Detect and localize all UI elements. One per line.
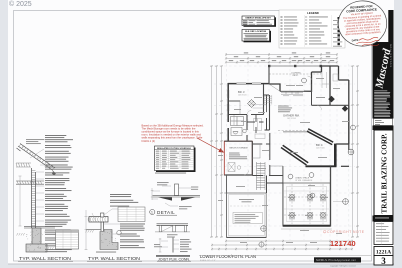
corridor west wall (269, 133, 271, 175)
job info black band (373, 216, 394, 222)
br4 thick east wall (334, 144, 337, 167)
patio slab outline (227, 193, 267, 237)
joist dim (159, 238, 162, 252)
detail ref circle (150, 209, 155, 214)
left outer wall upper (227, 83, 229, 122)
mech fixtures (228, 163, 235, 172)
red energy note (142, 124, 204, 143)
wall below mech (226, 175, 228, 238)
wall section 1 title underline (18, 260, 73, 262)
wall section 2 stem wall (100, 230, 118, 250)
svg-text:BR. 4: BR. 4 (316, 143, 323, 147)
right wall br4 connect (336, 143, 349, 145)
plan extra thin partitions (234, 84, 312, 166)
bottom-left marker circle (259, 242, 264, 247)
diag wall upper (307, 129, 333, 145)
crawl space dashed grid (284, 184, 329, 224)
gather note block (278, 106, 292, 113)
wall section 2 leaders (92, 209, 126, 234)
main top wall (228, 83, 270, 85)
gap bar (373, 126, 394, 131)
svg-text:Copyright © All rights reserve: Copyright © All rights reserved (330, 264, 356, 267)
door arc mech (244, 171, 249, 176)
svg-text:16/2 X 15/8: 16/2 X 15/8 (287, 118, 296, 120)
sheet number box (374, 256, 393, 266)
marker circle 2 (342, 105, 348, 111)
detail leaders (152, 186, 191, 206)
marker circle crawl 1 (288, 174, 293, 179)
wall section 1 footing pad (26, 244, 47, 252)
svg-text:121740: 121740 (330, 239, 356, 248)
copyright note red (323, 230, 364, 234)
svg-text:3: 3 (381, 256, 386, 266)
wall section 1 roof rafter hatch (19, 144, 54, 169)
top wall window 1 (237, 83, 247, 85)
svg-text:NWMLS·PhotoAppraisal·net: NWMLS·PhotoAppraisal·net (316, 258, 356, 262)
detail labels (157, 182, 169, 185)
stamp signature tail (362, 44, 379, 45)
svg-text:TYP. WALL SECTION: TYP. WALL SECTION (88, 256, 140, 261)
right wing bay step (341, 144, 349, 166)
wall section 1 mini table (56, 230, 79, 249)
joist beam (157, 224, 189, 226)
foundation left wall (282, 166, 284, 227)
plan construction lines horizontal (214, 66, 355, 226)
svg-text:TRAIL BLAZING CORP.: TRAIL BLAZING CORP. (380, 133, 389, 213)
wall section 2 annotations bottom (120, 224, 145, 249)
wall y175 hall south (252, 175, 283, 177)
left lower outer wall (224, 175, 226, 193)
wall section 2 annotations top (110, 194, 138, 207)
patio label (239, 199, 254, 200)
wall section 1 mid floor band (16, 181, 44, 184)
svg-text:11/0 X 10/0: 11/0 X 10/0 (316, 147, 325, 149)
plan right dimension chains (351, 65, 359, 238)
wall section 1 leaders (30, 149, 54, 232)
insulated footing schedule table (155, 146, 195, 171)
br3 diamond fixture (248, 100, 256, 108)
svg-text:JOIST PLM. CONN.: JOIST PLM. CONN. (158, 257, 190, 261)
hall wall vertical (246, 115, 248, 141)
left wall windows (228, 90, 229, 111)
wall section 2 floor batt band (88, 217, 108, 223)
svg-text:DATE:: DATE: (352, 39, 360, 43)
diag wall lower (281, 145, 308, 165)
joist lower leaders (161, 240, 179, 249)
door arc gather (308, 76, 312, 80)
svg-text:PATIO: PATIO (293, 74, 299, 77)
wall y144 kitchen south (252, 143, 270, 145)
drawn-checked box (374, 119, 393, 126)
wall section 1 grade hatch (17, 233, 54, 250)
plan bottom dimension chains (211, 240, 353, 251)
wall section 1 stud wall (32, 168, 36, 228)
svg-text:N1101.1 (2): N1101.1 (2) (142, 139, 156, 143)
title strip fine print (374, 91, 390, 118)
svg-text:TYP. WALL SECTION: TYP. WALL SECTION (19, 256, 71, 261)
patio marker circle (261, 226, 267, 232)
wall section 1 ceiling insulation (16, 163, 31, 167)
marker circle right (343, 199, 349, 205)
plan top dim labels (229, 52, 334, 61)
stair upper hatch (264, 95, 272, 105)
right outer wall (348, 105, 350, 144)
svg-text:BR. 3: BR. 3 (238, 90, 245, 94)
br3 right wall (263, 84, 265, 115)
wall section 1 top label (26, 139, 44, 144)
revision box divider (381, 222, 383, 245)
hall wall above crawl (267, 182, 284, 184)
svg-text:ELE. DEF. LOCATION: ELE. DEF. LOCATION (245, 30, 266, 33)
detail title underline (157, 214, 178, 216)
beam dashed line (278, 130, 309, 132)
left outer wall lower (227, 128, 229, 141)
porch dashed outline (269, 66, 321, 84)
br3 closet wall (228, 100, 240, 102)
kitchen cabinets (253, 105, 267, 131)
girder dashed lines crawl (284, 191, 329, 209)
svg-text:INSULATED FOOTING SCHEDULE: INSULATED FOOTING SCHEDULE (157, 147, 191, 150)
foundation right wall (330, 166, 332, 226)
red arrow to mech room (197, 138, 224, 152)
leader right wing (333, 201, 343, 203)
ele def location box (242, 30, 270, 42)
crawl space inner rect (287, 187, 327, 222)
footing schedule footnote (155, 173, 186, 174)
plan tiny labels scatter (218, 78, 350, 243)
crawl space outline (283, 183, 330, 225)
marker circle right upper (351, 125, 356, 130)
wall section 1 footing stipple (26, 230, 47, 251)
stairwell walls center (264, 95, 270, 130)
marker circle right mid (348, 149, 354, 155)
wall section 2 rim joist (101, 213, 104, 217)
joist ground line (155, 231, 190, 233)
svg-text:© 2025: © 2025 (9, 0, 32, 8)
hall label (316, 97, 325, 98)
porch posts (268, 65, 322, 67)
joist footing bar (156, 255, 190, 257)
marker circle crawl 2 (309, 173, 314, 178)
plan left dimension chains (210, 65, 223, 238)
mech walls under red (224, 141, 252, 175)
wall section 2 mini table (118, 207, 145, 222)
energy envelope key shadow (244, 17, 277, 27)
joist posts (159, 225, 186, 231)
wall section 1 annotations lower (45, 178, 72, 252)
porch top edge (269, 65, 321, 67)
wall section 1 annotations upper (45, 135, 73, 175)
br4 south thick wall (306, 165, 337, 167)
joist brace (162, 226, 173, 232)
foundation bottom thick wall (283, 225, 331, 227)
joist annotations right (180, 239, 192, 252)
marker circle crawl 3 (310, 193, 315, 198)
door arc br3 (247, 111, 251, 115)
joist title underline (157, 260, 191, 262)
pier pads (289, 194, 325, 217)
top wall window 2 (252, 83, 261, 85)
sheet bottom shadow (8, 264, 394, 265)
plan number box (374, 247, 393, 256)
br3 bottom wall (228, 114, 264, 116)
bath wall x256 (255, 115, 257, 133)
bath wall y122 (247, 121, 264, 123)
right wing top wall (304, 72, 312, 91)
energy envelope key box (242, 16, 275, 26)
code compliance stamp (337, 0, 388, 48)
mls watermark bar (314, 257, 361, 262)
kitchen island (255, 134, 265, 139)
wall section 1 roof diagonal (17, 144, 56, 171)
wall section 1 wall insulation rungs (32, 171, 36, 226)
detail left wedge (158, 197, 172, 200)
shear marker diamond 1 (328, 96, 335, 103)
wall gather left jog (269, 84, 280, 91)
legend box (279, 10, 345, 48)
wall section 1 roof sheathing ticks (22, 146, 53, 168)
hall wall west of crawl (266, 176, 268, 194)
svg-text:LEGEND: LEGEND (307, 11, 319, 15)
wall section 2 ground note (96, 252, 116, 253)
window sill marks gather (283, 95, 303, 97)
mech storage red rect (224, 141, 252, 175)
svg-text:10/0 X 11/0: 10/0 X 11/0 (238, 95, 247, 97)
marker circle 1 (302, 78, 307, 83)
center stub walls (264, 95, 270, 130)
wall section 1 stem wall (32, 228, 41, 246)
wall section 2 dim line (85, 210, 88, 250)
wall section 2 cripple wall (101, 222, 104, 231)
detail post (175, 184, 179, 196)
beam label (283, 131, 307, 132)
right wing upper walls (312, 66, 349, 105)
joist lower post (172, 238, 174, 253)
svg-text:SCALE: 1/4" = 1'-0": SCALE: 1/4" = 1'-0" (200, 259, 216, 262)
patio dashes (230, 205, 263, 207)
footing schedule shadow (156, 148, 196, 173)
svg-text:COLLECTION: COLLECTION (391, 43, 393, 67)
mascord logo block (373, 42, 394, 119)
svg-text:GATHER RM.: GATHER RM. (283, 114, 300, 118)
detail dim (151, 188, 154, 200)
bath fixtures (231, 128, 246, 136)
wh circle (237, 166, 241, 170)
revision box (374, 222, 393, 245)
svg-text:18" MIN. CLEARANCE: 18" MIN. CLEARANCE (295, 179, 313, 182)
plan construction lines vertical (227, 64, 349, 240)
gather top window wall (280, 90, 304, 92)
svg-text:MECH./STORAGE: MECH./STORAGE (230, 147, 249, 150)
svg-text:DETAIL: DETAIL (157, 210, 175, 215)
wall section 1 eave gutter (52, 171, 56, 175)
crawl pier labels (289, 200, 326, 219)
plan top dimension chains (225, 53, 338, 64)
svg-text:COPYRIGHT NOTE: COPYRIGHT NOTE (327, 230, 365, 234)
trail blazing corp box (374, 130, 393, 216)
gather right wall (311, 84, 313, 105)
wall section 2 grade line (86, 229, 101, 231)
wall section 2 title underline (87, 260, 142, 262)
wall section 1 floor line (24, 227, 55, 228)
plan title underline (199, 254, 371, 256)
joist mid label (167, 234, 178, 237)
door arc br4 (317, 105, 322, 110)
patio inner line (228, 195, 264, 236)
svg-text:1: 1 (151, 210, 153, 214)
bottom wall detail left (227, 237, 267, 239)
stairs hatch (257, 162, 266, 190)
hall bottom wall right wing (312, 104, 350, 106)
svg-text:1221A: 1221A (376, 250, 391, 256)
closet partitions (231, 117, 244, 126)
patio note box (233, 213, 263, 224)
ele def location shadow (244, 31, 272, 43)
wall section 2 anchor circle (117, 231, 121, 235)
detail right wedge (181, 197, 196, 200)
joist annotations left (154, 244, 162, 247)
detail slab lines (153, 196, 201, 197)
mech note (229, 153, 247, 160)
upper right closet lines (322, 72, 338, 88)
title strip narrow top column (388, 10, 393, 44)
wall section 1 dim line (19, 176, 22, 226)
svg-text:LOWER FLOOR/FDTN. PLAN: LOWER FLOOR/FDTN. PLAN (200, 254, 256, 259)
center wall vertical (268, 66, 270, 84)
